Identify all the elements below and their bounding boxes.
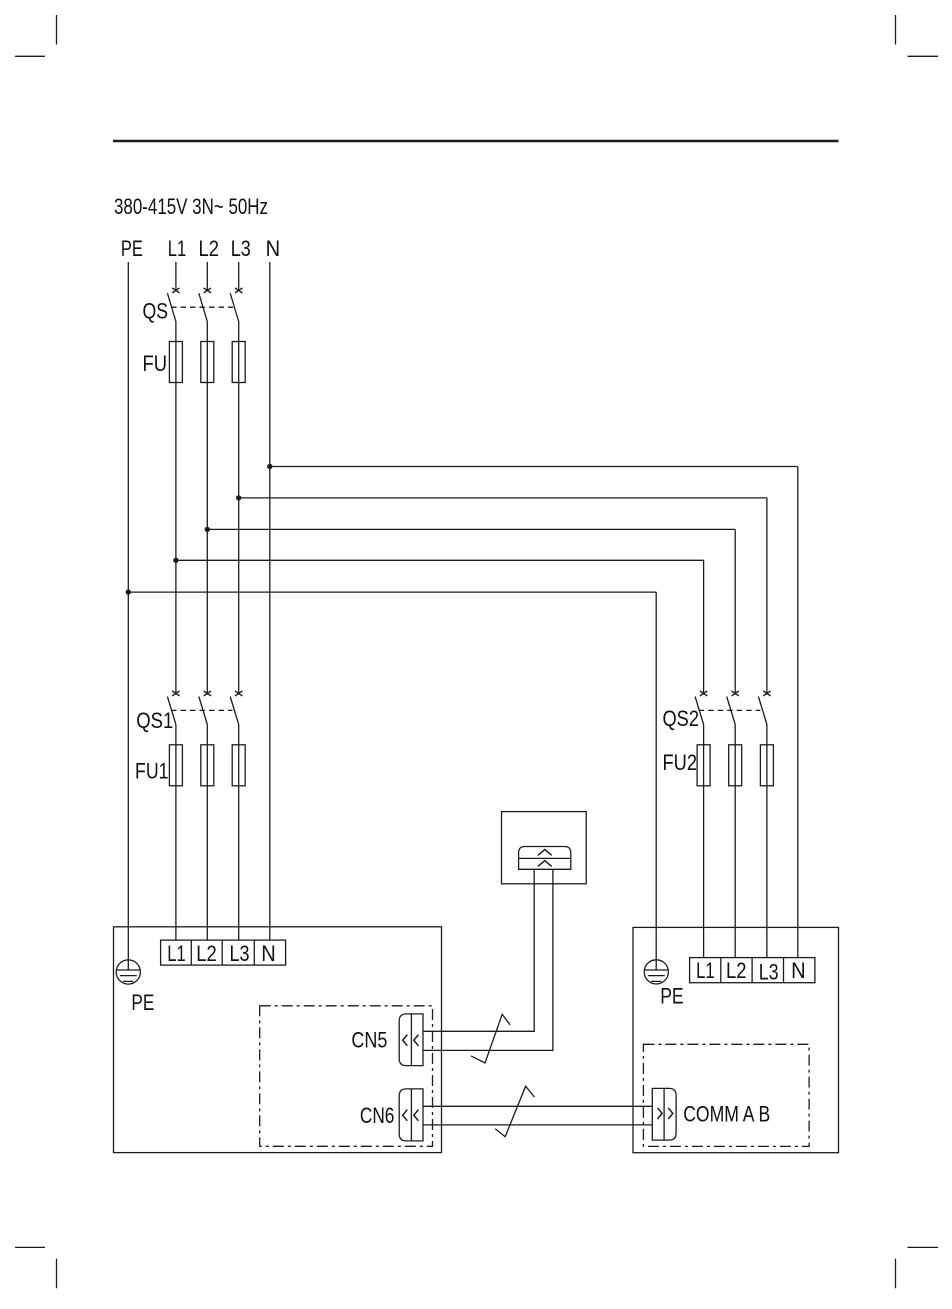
wire L3 branch vertical right: [766, 498, 768, 695]
QS2 linkage dashed line: [699, 709, 761, 711]
wire L1 upper: [175, 262, 177, 291]
right unit enclosure: [633, 927, 839, 1152]
node L3 branch: [236, 495, 241, 500]
connector COMM: [652, 1088, 676, 1140]
svg-text:L1: L1: [696, 958, 715, 983]
header rule: [113, 140, 839, 142]
svg-text:L2: L2: [199, 236, 220, 261]
wire L2 upper: [206, 262, 208, 291]
svg-text:QS1: QS1: [136, 708, 173, 733]
svg-text:PE: PE: [131, 990, 154, 1015]
ground PE symbol left unit: [116, 960, 140, 984]
QS linkage dashed line: [171, 306, 233, 308]
crop mark bottom-right: [896, 1247, 939, 1288]
wire N branch vertical right: [797, 467, 799, 958]
wire L2 lower left: [206, 725, 208, 941]
left control board dash-dot box: [260, 1006, 433, 1147]
disconnect switch QS2 pole L2: [727, 691, 739, 725]
wire L2 lower right: [734, 725, 736, 958]
wire controller lead 1: [423, 869, 534, 1031]
connector CN6: [399, 1089, 423, 1141]
wire L3 mid: [238, 322, 240, 695]
svg-text:COMM A B: COMM A B: [683, 1102, 770, 1127]
svg-text:N: N: [791, 958, 806, 983]
connector CN5: [399, 1014, 423, 1066]
svg-text:L1: L1: [167, 941, 186, 966]
svg-text:FU: FU: [143, 351, 168, 376]
fuse FU1 pole L1: [169, 745, 182, 786]
wired controller box: [502, 812, 587, 884]
crop mark bottom-left: [15, 1247, 57, 1288]
svg-text:PE: PE: [660, 984, 684, 1009]
svg-text:N: N: [261, 941, 276, 966]
wire L3 branch horizontal: [239, 497, 767, 499]
svg-text:N: N: [266, 236, 281, 261]
fuse FU2 pole L1: [697, 745, 710, 786]
svg-text:FU2: FU2: [663, 750, 698, 775]
svg-text:L3: L3: [231, 236, 251, 261]
wire L3 upper: [238, 262, 240, 291]
disconnect switch QS2 pole L1: [695, 691, 707, 725]
wire controller lead 2: [423, 869, 553, 1050]
fuse FU2 pole L2: [729, 745, 742, 786]
cable marker comm cable: [495, 1086, 534, 1137]
svg-text:CN6: CN6: [360, 1103, 395, 1128]
svg-text:PE: PE: [121, 236, 143, 261]
disconnect switch QS1 pole L1: [167, 691, 179, 725]
wire L1 lower right: [703, 725, 705, 958]
right control board dash-dot box: [643, 1044, 809, 1146]
node L1 branch: [173, 558, 178, 563]
wire L1 branch horizontal: [176, 559, 704, 561]
wire PE (left vertical): [127, 262, 129, 970]
wire CN6 to COMM A: [423, 1105, 652, 1107]
fuse FU pole L2: [201, 342, 214, 383]
wire L3 lower left: [238, 725, 240, 941]
wire PE branch vertical right: [655, 592, 657, 970]
svg-text:CN5: CN5: [351, 1028, 387, 1053]
wired controller connector: [519, 847, 571, 870]
disconnect switch QS1 pole L2: [199, 691, 211, 725]
svg-text:FU1: FU1: [135, 759, 169, 784]
svg-text:QS: QS: [143, 299, 169, 324]
ground PE symbol right unit: [644, 960, 668, 984]
QS1 linkage dashed line: [171, 709, 233, 711]
wire CN6 to COMM B: [423, 1124, 652, 1126]
wire L2 branch vertical right: [734, 529, 736, 694]
left terminal block: [161, 940, 286, 965]
cable marker CN5 cable: [471, 1014, 510, 1063]
svg-text:380-415V 3N~ 50Hz: 380-415V 3N~ 50Hz: [114, 194, 268, 219]
left unit enclosure: [114, 927, 442, 1153]
node PE branch: [126, 589, 131, 594]
svg-text:L3: L3: [230, 941, 250, 966]
wire L1 branch vertical right: [703, 560, 705, 694]
wire N vertical: [269, 262, 271, 940]
svg-text:L2: L2: [196, 941, 217, 966]
wire L2 mid: [206, 322, 208, 695]
node L2 branch: [205, 527, 210, 532]
svg-text:L2: L2: [726, 958, 747, 983]
disconnect switch QS pole L1: [167, 288, 179, 322]
crop mark top-left: [15, 15, 57, 56]
fuse FU1 pole L3: [232, 745, 245, 786]
wire N branch horizontal: [270, 466, 798, 468]
wire L1 lower left: [175, 725, 177, 941]
fuse FU pole L1: [169, 342, 182, 383]
node N branch: [267, 464, 272, 469]
disconnect switch QS pole L3: [230, 288, 242, 322]
disconnect switch QS pole L2: [199, 288, 211, 322]
disconnect switch QS1 pole L3: [230, 691, 242, 725]
wire PE branch horizontal: [128, 591, 656, 593]
crop mark top-right: [896, 15, 939, 56]
svg-text:QS2: QS2: [663, 706, 700, 731]
fuse FU2 pole L3: [760, 745, 773, 786]
fuse FU pole L3: [232, 342, 245, 383]
right terminal block: [690, 958, 815, 983]
wire L2 branch horizontal: [207, 528, 735, 530]
wire L3 lower right: [766, 725, 768, 958]
fuse FU1 pole L2: [201, 745, 214, 786]
disconnect switch QS2 pole L3: [758, 691, 770, 725]
svg-text:L3: L3: [759, 960, 779, 985]
wire L1 mid: [175, 322, 177, 695]
svg-text:L1: L1: [168, 236, 187, 261]
